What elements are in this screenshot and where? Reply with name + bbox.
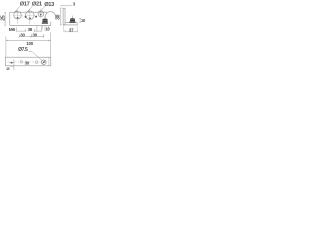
strip outline xyxy=(5,57,51,66)
strip hole O7.5 hatched xyxy=(42,60,47,65)
side nut xyxy=(70,18,75,22)
dim 30 vertical (side) xyxy=(60,8,62,25)
front bolt shaft xyxy=(44,16,46,19)
dim 100 xyxy=(6,32,51,57)
small dim arrow xyxy=(11,62,14,64)
strip center line xyxy=(7,61,47,63)
horizontal center line hole 1 xyxy=(13,14,23,16)
front nut xyxy=(42,19,47,23)
plate outline xyxy=(10,12,51,25)
dot in hole 2 xyxy=(29,17,31,19)
svg-text:100: 100 xyxy=(26,41,33,46)
center line hole 1 xyxy=(17,9,19,24)
svg-text:M6: M6 xyxy=(9,27,16,33)
svg-text:15: 15 xyxy=(6,67,10,71)
strip inner right line xyxy=(48,57,50,66)
svg-text:Ø7.5: Ø7.5 xyxy=(18,47,28,53)
dim 3 (thickness) xyxy=(60,5,72,7)
front washer xyxy=(42,22,48,23)
dim 37 (side) xyxy=(65,30,77,33)
center line hole 2 xyxy=(29,9,31,24)
dim 30 / 30 xyxy=(19,34,43,37)
clamp circle 1 (O17) xyxy=(14,11,22,19)
center line hole 3 xyxy=(40,9,42,19)
leader O13 xyxy=(40,6,45,12)
end eye circle xyxy=(45,12,56,19)
leader arrowhead O17 xyxy=(15,10,17,12)
svg-text:Ø21: Ø21 xyxy=(32,2,42,8)
side stud xyxy=(71,16,73,18)
horizontal center line hole 3 xyxy=(38,13,44,15)
dim 38 xyxy=(16,26,41,32)
M6 feature line xyxy=(13,59,15,70)
side flange (horizontal leg) xyxy=(63,23,77,25)
dim 10 (side) xyxy=(79,18,81,22)
small hole between hole 1 and 2 xyxy=(25,16,27,18)
leader arrowhead O21 xyxy=(27,10,29,12)
dot in hole 1 xyxy=(17,17,19,19)
side plate (vertical leg) xyxy=(63,8,65,25)
strip hole small 2 xyxy=(35,61,38,64)
extension lines under right end xyxy=(42,26,48,32)
side washer xyxy=(69,22,75,23)
svg-text:25: 25 xyxy=(1,15,7,21)
clamp circle 3 (O13) xyxy=(38,11,44,17)
dim 25 vertical xyxy=(4,13,6,26)
svg-text:Ø13: Ø13 xyxy=(44,2,54,8)
svg-text:Ø17: Ø17 xyxy=(20,2,30,8)
dot in hole 3 xyxy=(40,14,42,16)
clamp circle 2 (O21) xyxy=(26,11,35,20)
horizontal center line hole 2 xyxy=(24,14,34,16)
strip hole small 1 xyxy=(20,61,23,64)
svg-text:30: 30 xyxy=(55,14,61,20)
leader arrowhead O13 xyxy=(40,10,42,12)
small hole between hole 2 and 3 xyxy=(35,16,37,18)
leader O17 xyxy=(15,6,20,12)
svg-text:3: 3 xyxy=(73,1,76,6)
leader O21 xyxy=(27,6,32,12)
